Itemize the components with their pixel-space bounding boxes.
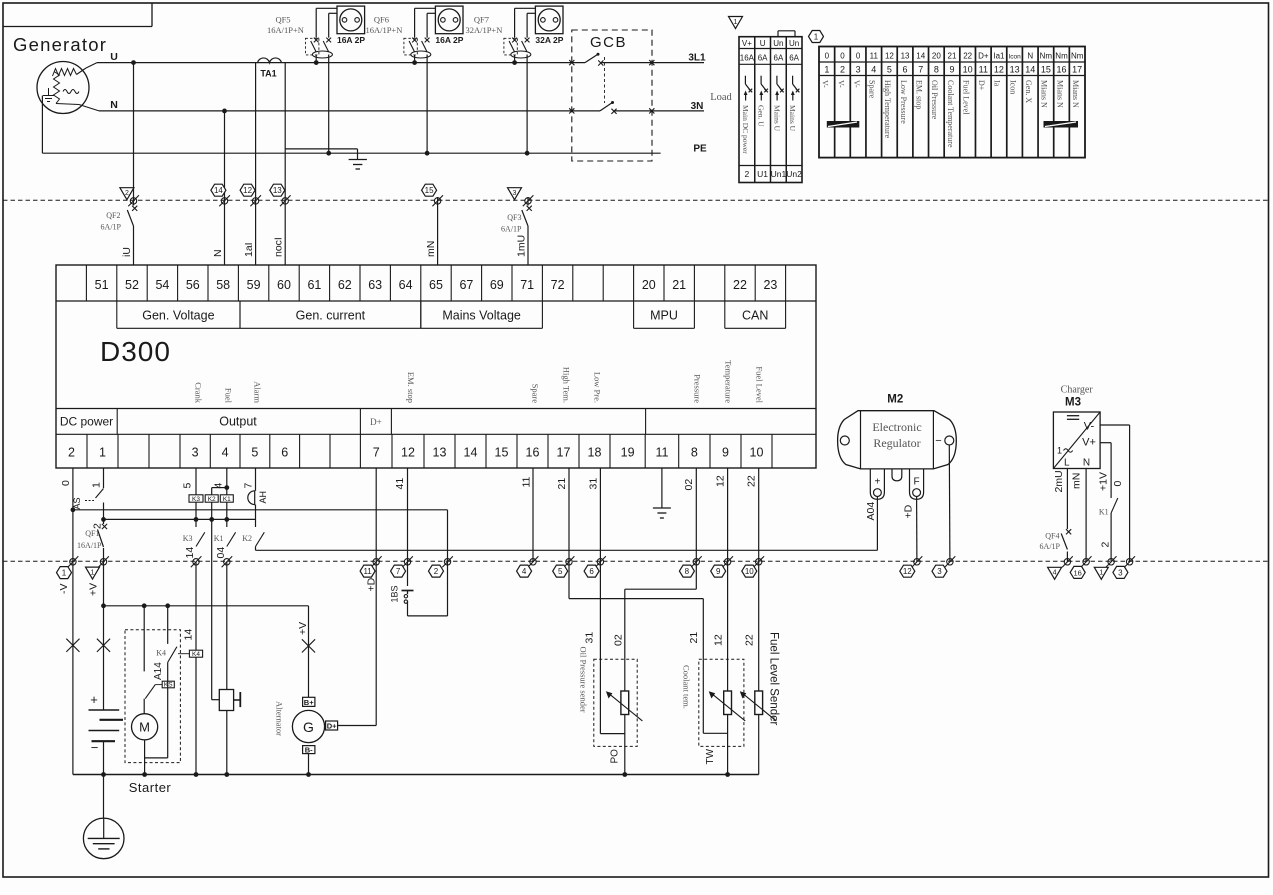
wire 40 lower to fuel valve <box>224 562 229 777</box>
svg-text:6A/1P: 6A/1P <box>101 223 122 232</box>
svg-text:GCB: GCB <box>590 34 627 51</box>
hexagon tag 14 <box>211 184 226 196</box>
svg-text:02: 02 <box>613 634 625 646</box>
svg-text:1: 1 <box>62 569 67 578</box>
label Icon <box>273 237 285 257</box>
connector point 6 <box>595 556 606 567</box>
label SB1 <box>390 585 400 602</box>
svg-text:10: 10 <box>750 446 764 460</box>
svg-text:Pressure: Pressure <box>693 374 703 403</box>
svg-text:9: 9 <box>949 65 954 75</box>
svg-text:18: 18 <box>588 446 602 460</box>
svg-text:6A: 6A <box>774 54 784 63</box>
svg-text:QF6: QF6 <box>374 15 389 25</box>
wire Ui U-bus to D300 terminal 52 with QF2 <box>127 60 137 265</box>
label M3 <box>1065 397 1081 409</box>
svg-text:N: N <box>1027 52 1033 61</box>
contact K1 <box>214 532 236 546</box>
wire M2 F D+ excite <box>916 497 918 562</box>
svg-text:Fuel Level Sender: Fuel Level Sender <box>768 632 780 726</box>
contact K1 charger <box>1099 498 1118 517</box>
svg-text:Un: Un <box>789 39 799 48</box>
svg-text:Coolant tem.: Coolant tem. <box>681 665 691 709</box>
svg-text:10: 10 <box>745 567 754 576</box>
connector point 4 Um2 <box>1062 556 1073 567</box>
svg-text:K4: K4 <box>192 651 200 658</box>
svg-text:Low Pressure: Low Pressure <box>899 80 908 124</box>
svg-text:1: 1 <box>99 446 106 460</box>
svg-text:D+: D+ <box>327 722 337 731</box>
svg-text:14: 14 <box>214 186 223 195</box>
svg-text:8: 8 <box>934 65 939 75</box>
warning triangle 3 <box>508 188 522 200</box>
hexagon tag 12 <box>240 184 255 196</box>
svg-text:Un1: Un1 <box>771 169 787 179</box>
svg-text:6A: 6A <box>789 54 799 63</box>
connector point 15 Nm <box>432 195 443 206</box>
svg-text:04: 04 <box>215 547 227 559</box>
svg-text:iU: iU <box>121 247 133 257</box>
wire U 3L1 bus <box>97 62 704 64</box>
label Nm charger <box>1071 473 1083 489</box>
svg-text:3: 3 <box>1118 568 1123 577</box>
warning triangle 1 charger <box>1094 567 1108 579</box>
svg-text:V-: V- <box>852 80 861 88</box>
svg-text:16: 16 <box>1074 568 1082 577</box>
svg-text:11: 11 <box>870 52 879 61</box>
svg-text:11: 11 <box>655 446 668 460</box>
svg-text:K3: K3 <box>192 496 200 503</box>
charger M3 body <box>1053 412 1100 469</box>
GCB mechanical link <box>604 57 606 103</box>
svg-text:Main DC power: Main DC power <box>741 105 750 154</box>
svg-text:31: 31 <box>584 632 596 644</box>
label wire 2 charger <box>1100 542 1112 548</box>
svg-text:Spare: Spare <box>531 384 541 404</box>
label wire 4 <box>213 483 225 489</box>
label Coolant tem. <box>681 665 691 709</box>
svg-text:Low Pre.: Low Pre. <box>593 372 603 403</box>
svg-text:K4: K4 <box>156 649 166 658</box>
fuel level sender potentiometer <box>740 691 777 721</box>
connector point 3 Um1 <box>523 195 534 206</box>
svg-text:2: 2 <box>840 65 845 75</box>
svg-text:Coolant Temperature: Coolant Temperature <box>946 80 955 148</box>
hexagon tag 11 <box>360 565 375 577</box>
label Oil Pressure sender <box>578 647 588 713</box>
label Charger <box>1061 385 1094 396</box>
wire Nm to D300 terminal 65 <box>437 197 439 265</box>
wire D+ terminal 7 to alternator <box>338 468 377 726</box>
wire motor loop <box>142 662 167 776</box>
svg-text:Nm: Nm <box>1071 52 1084 61</box>
wire alternator B- to bus <box>306 754 311 777</box>
wire Um2 charger L with QF4 <box>1061 469 1071 562</box>
svg-text:8: 8 <box>685 567 690 576</box>
label wire 20 <box>683 479 695 491</box>
svg-text:64: 64 <box>399 278 413 292</box>
label Ia1 <box>243 242 255 257</box>
socket QF5 16A with RCBO <box>267 6 365 156</box>
svg-text:15: 15 <box>425 186 434 195</box>
svg-text:5: 5 <box>558 567 563 576</box>
svg-text:16: 16 <box>1057 65 1067 75</box>
label D+ wire <box>366 577 378 591</box>
wire Nm charger N <box>1085 469 1087 562</box>
svg-text:69: 69 <box>490 278 504 292</box>
svg-text:0: 0 <box>856 52 861 61</box>
svg-text:Load: Load <box>710 92 732 103</box>
svg-text:1: 1 <box>814 33 819 42</box>
svg-text:6: 6 <box>281 446 288 460</box>
label wire 0 <box>60 480 72 486</box>
svg-text:V-: V- <box>836 80 845 88</box>
svg-text:1mU: 1mU <box>516 235 528 257</box>
svg-text:10: 10 <box>963 65 973 75</box>
svg-text:QF4: QF4 <box>1045 532 1059 541</box>
svg-text:71: 71 <box>520 278 534 292</box>
svg-text:Mians N: Mians N <box>1071 80 1080 108</box>
svg-text:2: 2 <box>1100 542 1112 548</box>
svg-text:AH: AH <box>258 491 268 504</box>
regulator M2 body <box>838 411 957 500</box>
svg-text:7: 7 <box>373 446 380 460</box>
svg-text:1aI: 1aI <box>243 242 255 257</box>
svg-text:3: 3 <box>937 567 942 576</box>
svg-text:7: 7 <box>918 65 923 75</box>
label V+ alternator <box>297 622 309 635</box>
svg-text:High Temperature: High Temperature <box>883 80 892 139</box>
svg-text:D300: D300 <box>100 336 171 367</box>
load breaker block QF group <box>739 31 802 183</box>
label wire 13 lower <box>584 632 596 644</box>
hexagon tag 6 <box>584 565 599 577</box>
svg-text:16A 2P: 16A 2P <box>435 35 463 45</box>
svg-text:3N: 3N <box>691 101 704 112</box>
label wire 41 upper <box>184 547 196 559</box>
connector point 13 Icon <box>280 195 291 206</box>
svg-text:4: 4 <box>222 446 229 460</box>
label wire 22 <box>746 475 758 487</box>
svg-text:3: 3 <box>513 190 517 197</box>
svg-text:11: 11 <box>521 476 533 487</box>
svg-text:12: 12 <box>715 475 727 487</box>
svg-text:3L1: 3L1 <box>688 53 706 64</box>
svg-text:AS: AS <box>72 497 82 509</box>
coolant temperature sender potentiometer <box>709 691 746 721</box>
label M2 <box>887 394 903 406</box>
svg-text:54: 54 <box>155 278 169 292</box>
connector point 16 Nm <box>1081 556 1092 567</box>
label wire 5 <box>182 483 194 489</box>
svg-text:0: 0 <box>1112 481 1124 487</box>
svg-text:Gen. Voltage: Gen. Voltage <box>142 309 214 323</box>
wire 7 from terminal 5 <box>255 468 257 527</box>
svg-text:K2: K2 <box>242 534 252 543</box>
hexagon tag 10 <box>742 565 757 577</box>
svg-text:5: 5 <box>887 65 892 75</box>
connector point 5 <box>564 556 575 567</box>
connector point wire 41 <box>191 556 202 567</box>
oil pressure sender potentiometer <box>606 691 643 721</box>
svg-text:Fuel Level: Fuel Level <box>961 80 970 115</box>
separator dashed line upper panel boundary <box>3 199 1269 201</box>
label wire 14 <box>394 478 406 490</box>
breaker label QF3 <box>501 213 522 234</box>
wire 12 from terminal 17 <box>569 468 728 733</box>
svg-text:02: 02 <box>683 479 695 491</box>
svg-text:32A/1P+N: 32A/1P+N <box>465 25 502 35</box>
connector point 9 <box>722 556 733 567</box>
svg-text:Nm: Nm <box>1040 52 1053 61</box>
svg-text:D+: D+ <box>370 417 382 427</box>
svg-text:U1: U1 <box>757 169 768 179</box>
wire 0 charger V- <box>1100 425 1130 562</box>
svg-text:+V: +V <box>297 622 309 635</box>
svg-text:4: 4 <box>1053 570 1057 577</box>
CT TA1 <box>258 58 282 79</box>
svg-text:+1V: +1V <box>1098 472 1110 491</box>
svg-text:Alternator: Alternator <box>275 701 285 736</box>
svg-text:16A 2P: 16A 2P <box>337 35 365 45</box>
svg-text:72: 72 <box>551 278 565 292</box>
svg-text:12: 12 <box>994 65 1004 75</box>
svg-text:Gen. X: Gen. X <box>1024 80 1033 103</box>
wire Icon branch to earth <box>285 149 357 160</box>
hexagon tag 1 V- <box>57 567 72 579</box>
label wire 2 below SA <box>92 523 104 529</box>
switch SA blade <box>85 489 104 501</box>
wire M2 minus <box>948 445 951 562</box>
svg-text:15: 15 <box>495 446 509 460</box>
wire SB1 return loop <box>408 510 448 616</box>
svg-text:Ia: Ia <box>993 80 1002 87</box>
separator dashed line lower engine boundary <box>3 560 1269 562</box>
svg-text:12: 12 <box>885 52 894 61</box>
svg-text:N: N <box>1083 458 1090 469</box>
svg-text:QF5: QF5 <box>275 15 290 25</box>
svg-text:Fuel Level: Fuel Level <box>755 366 765 403</box>
svg-text:1: 1 <box>824 65 829 75</box>
hexagon tag 8 <box>679 565 694 577</box>
svg-text:14: 14 <box>183 629 195 641</box>
svg-text:KS: KS <box>164 682 173 689</box>
svg-text:3: 3 <box>192 446 199 460</box>
svg-text:QF1: QF1 <box>85 529 99 538</box>
svg-text:3: 3 <box>856 65 861 75</box>
svg-text:0: 0 <box>840 52 845 61</box>
wire 13 from terminal 18 <box>600 468 624 734</box>
label OP <box>610 749 621 764</box>
svg-text:21: 21 <box>556 478 568 490</box>
label 3N <box>691 101 704 112</box>
label SA <box>72 497 82 509</box>
svg-text:U: U <box>760 39 766 48</box>
breaker label QF2 <box>101 211 122 232</box>
svg-text:1: 1 <box>91 569 95 576</box>
svg-text:M3: M3 <box>1065 397 1081 409</box>
svg-text:11: 11 <box>979 65 988 75</box>
svg-text:−: − <box>91 740 99 755</box>
label 3L1 <box>688 53 706 64</box>
svg-text:QF2: QF2 <box>106 211 120 220</box>
svg-text:52: 52 <box>125 278 139 292</box>
svg-text:N: N <box>212 249 224 257</box>
connector point 12 M2 <box>912 556 923 567</box>
wire generator frame to PE <box>41 96 43 154</box>
svg-text:Icon: Icon <box>1008 80 1017 94</box>
title block box top-left <box>3 3 152 27</box>
svg-text:13: 13 <box>273 186 282 195</box>
contact K2 <box>242 532 264 546</box>
svg-text:Fuel: Fuel <box>223 388 233 404</box>
svg-text:G: G <box>303 719 314 735</box>
svg-text:Un2: Un2 <box>786 169 802 179</box>
svg-text:MPU: MPU <box>650 309 678 323</box>
wire Ia1 TA1 to terminal 59 <box>255 63 257 265</box>
hexagon tag 2 <box>429 565 444 577</box>
wire Um1 to D300 terminal 71 with QF3 <box>522 197 532 265</box>
svg-text:Mains U: Mains U <box>788 105 797 132</box>
svg-text:21: 21 <box>672 278 686 292</box>
svg-text:M2: M2 <box>887 394 903 406</box>
svg-text:2: 2 <box>745 169 750 179</box>
connector point 3 M2 <box>945 556 956 567</box>
wire Icon TA1 to terminal 60 <box>284 63 286 265</box>
signal ground symbol <box>653 508 671 518</box>
svg-text:Mians N: Mians N <box>1040 80 1049 108</box>
svg-text:14: 14 <box>916 52 925 61</box>
contact K3 <box>183 532 205 546</box>
label wire 21 <box>715 475 727 487</box>
wire KS to motor <box>143 699 145 714</box>
svg-text:mN: mN <box>1071 473 1083 489</box>
svg-text:DC power: DC power <box>60 415 113 429</box>
svg-text:16A/1P+N: 16A/1P+N <box>267 25 304 35</box>
svg-text:16A/1P: 16A/1P <box>77 541 102 550</box>
svg-text:CAN: CAN <box>742 309 768 323</box>
fuel solenoid valve <box>212 690 241 711</box>
svg-text:B-: B- <box>305 745 313 754</box>
label N generator terminal <box>110 99 118 111</box>
svg-text:TA1: TA1 <box>260 69 276 79</box>
svg-text:13: 13 <box>1010 65 1020 75</box>
svg-text:D+: D+ <box>977 80 986 91</box>
svg-text:5: 5 <box>182 483 194 489</box>
svg-text:TW: TW <box>705 748 716 764</box>
hexagon tag 3 charger <box>1113 566 1128 578</box>
label wire 1 <box>91 482 103 488</box>
svg-text:-V: -V <box>58 584 70 595</box>
battery GB <box>89 606 124 777</box>
svg-text:Alarm: Alarm <box>253 381 263 403</box>
wire K2 branch <box>205 488 227 700</box>
svg-text:+V: +V <box>88 583 100 596</box>
hexagon tag 16 <box>1070 566 1085 578</box>
label wire 41 lower <box>183 629 195 641</box>
svg-text:PE: PE <box>693 144 707 155</box>
svg-text:V+: V+ <box>1082 437 1096 449</box>
svg-text:14: 14 <box>1025 65 1035 75</box>
label wire 7 <box>243 483 255 489</box>
svg-text:PO: PO <box>610 749 621 764</box>
label Nm wire <box>425 241 437 257</box>
battery negative bus <box>73 774 759 776</box>
svg-text:14: 14 <box>184 547 196 559</box>
controller D300 block <box>56 265 816 468</box>
svg-text:20: 20 <box>932 52 941 61</box>
svg-text:Charger: Charger <box>1061 385 1094 396</box>
wire V1+ charger with K1 <box>1100 443 1111 562</box>
GCB contact 3L1 <box>569 53 654 66</box>
oil pressure sender dashed box <box>594 659 637 746</box>
svg-text:6A/1P: 6A/1P <box>1040 542 1061 551</box>
svg-text:Ia1: Ia1 <box>993 52 1005 61</box>
svg-text:67: 67 <box>459 278 473 292</box>
svg-text:62: 62 <box>338 278 352 292</box>
hexagon tag 15 <box>422 184 437 196</box>
svg-text:21: 21 <box>948 52 957 61</box>
svg-text:A04: A04 <box>865 502 877 521</box>
svg-text:U: U <box>110 51 118 63</box>
svg-text:B+: B+ <box>304 698 314 707</box>
svg-text:12: 12 <box>713 634 725 646</box>
svg-text:58: 58 <box>216 278 230 292</box>
svg-text:2: 2 <box>434 567 439 576</box>
svg-text:2: 2 <box>125 190 129 197</box>
wire 4 from terminal 4 <box>220 468 233 527</box>
bus V plus upper horizontal <box>73 509 448 511</box>
D300 output signal rotated labels <box>194 360 765 404</box>
svg-text:17: 17 <box>1072 65 1082 75</box>
svg-text:20: 20 <box>642 278 656 292</box>
svg-text:EM. stop: EM. stop <box>915 80 924 109</box>
svg-text:8: 8 <box>691 446 698 460</box>
connector point 3 charger <box>1124 556 1135 567</box>
label N wire <box>212 249 224 257</box>
svg-text:K1: K1 <box>223 496 231 503</box>
svg-text:Spare: Spare <box>868 80 877 99</box>
contact KS blade <box>145 685 162 699</box>
terminal strip X1 rail <box>819 47 1085 158</box>
label 41A <box>153 662 164 680</box>
connector point 8 <box>691 556 702 567</box>
svg-text:Starter: Starter <box>129 780 172 795</box>
label wire 12 lower <box>688 632 700 644</box>
hexagon tag 12 M2 <box>900 565 915 577</box>
svg-text:22: 22 <box>746 475 758 487</box>
connector point 4 spare <box>528 556 539 567</box>
svg-text:Electronic: Electronic <box>872 420 921 434</box>
svg-text:23: 23 <box>763 278 777 292</box>
svg-text:16: 16 <box>526 446 540 460</box>
svg-text:6A: 6A <box>758 54 768 63</box>
wire K4 branch <box>165 603 170 644</box>
connector point 1 V1+ <box>1106 556 1117 567</box>
connector point 7 EMstop <box>402 556 413 567</box>
starter dashed enclosure <box>125 630 180 763</box>
svg-text:Nm: Nm <box>1055 52 1068 61</box>
svg-text:13: 13 <box>901 52 910 61</box>
coolant temperature sender dashed box <box>699 659 744 746</box>
label V+ <box>88 583 100 596</box>
svg-text:21: 21 <box>688 632 700 644</box>
ground symbol near sockets <box>349 160 367 170</box>
wire 1 from terminal 1 with SA and QF1 <box>98 468 108 608</box>
svg-text:6: 6 <box>903 65 908 75</box>
hexagon tag 7 <box>391 565 406 577</box>
label wire 0 charger <box>1112 481 1124 487</box>
